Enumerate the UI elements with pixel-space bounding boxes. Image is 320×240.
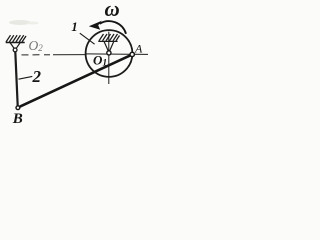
svg-text:1: 1 — [71, 19, 78, 34]
svg-text:A: A — [134, 41, 143, 55]
svg-text:2: 2 — [32, 67, 42, 86]
svg-text:B: B — [12, 111, 23, 127]
svg-text:ω: ω — [105, 0, 120, 21]
